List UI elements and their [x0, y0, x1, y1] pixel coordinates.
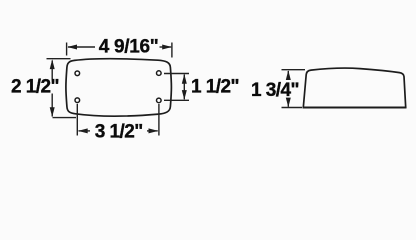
front view outline (lens body) — [66, 59, 171, 116]
dimension 3 1/2 line right with arrow — [149, 128, 159, 133]
mounting hole bottom-right — [157, 98, 162, 103]
dimension 3 1/2 extension line right — [158, 104, 160, 136]
dimension 4 9/16 extension line right — [171, 43, 173, 58]
svg-text:3 1/2": 3 1/2" — [95, 121, 143, 142]
side view bottom edge — [303, 107, 407, 109]
dimension 4 9/16 line left with arrow — [68, 46, 95, 48]
dimension 1 3/4 extension line top — [282, 69, 306, 71]
svg-text:4 9/16": 4 9/16" — [99, 37, 159, 58]
dimension 1 1/2 extension line top — [164, 73, 189, 75]
dimension 1 1/2 extension line bottom — [164, 99, 189, 101]
dimension 2 1/2 vertical line with arrows — [51, 61, 53, 80]
mounting hole top-right — [157, 71, 162, 76]
dimension 3 1/2 line left with arrow — [78, 128, 88, 133]
dimension 2 1/2 extension line bottom — [53, 117, 77, 119]
dimension 3 1/2 extension line left — [76, 104, 78, 136]
mounting hole top-left — [75, 71, 80, 76]
dimension 4 9/16 extension line left — [66, 43, 68, 56]
dimension 1 1/2 vertical line with arrows — [183, 75, 185, 100]
svg-text:1 1/2": 1 1/2" — [191, 76, 239, 97]
svg-text:2 1/2": 2 1/2" — [11, 76, 59, 97]
mounting hole bottom-left — [75, 98, 80, 103]
dimension 1 3/4 vertical line with arrows — [287, 71, 289, 79]
side view outline (lens profile) — [303, 68, 405, 107]
svg-text:1 3/4": 1 3/4" — [251, 80, 299, 101]
dimension 4 9/16 line right with arrow — [160, 46, 172, 48]
dimension 1 3/4 extension line bottom — [282, 107, 303, 109]
dimension 2 1/2 extension line top — [47, 58, 71, 60]
